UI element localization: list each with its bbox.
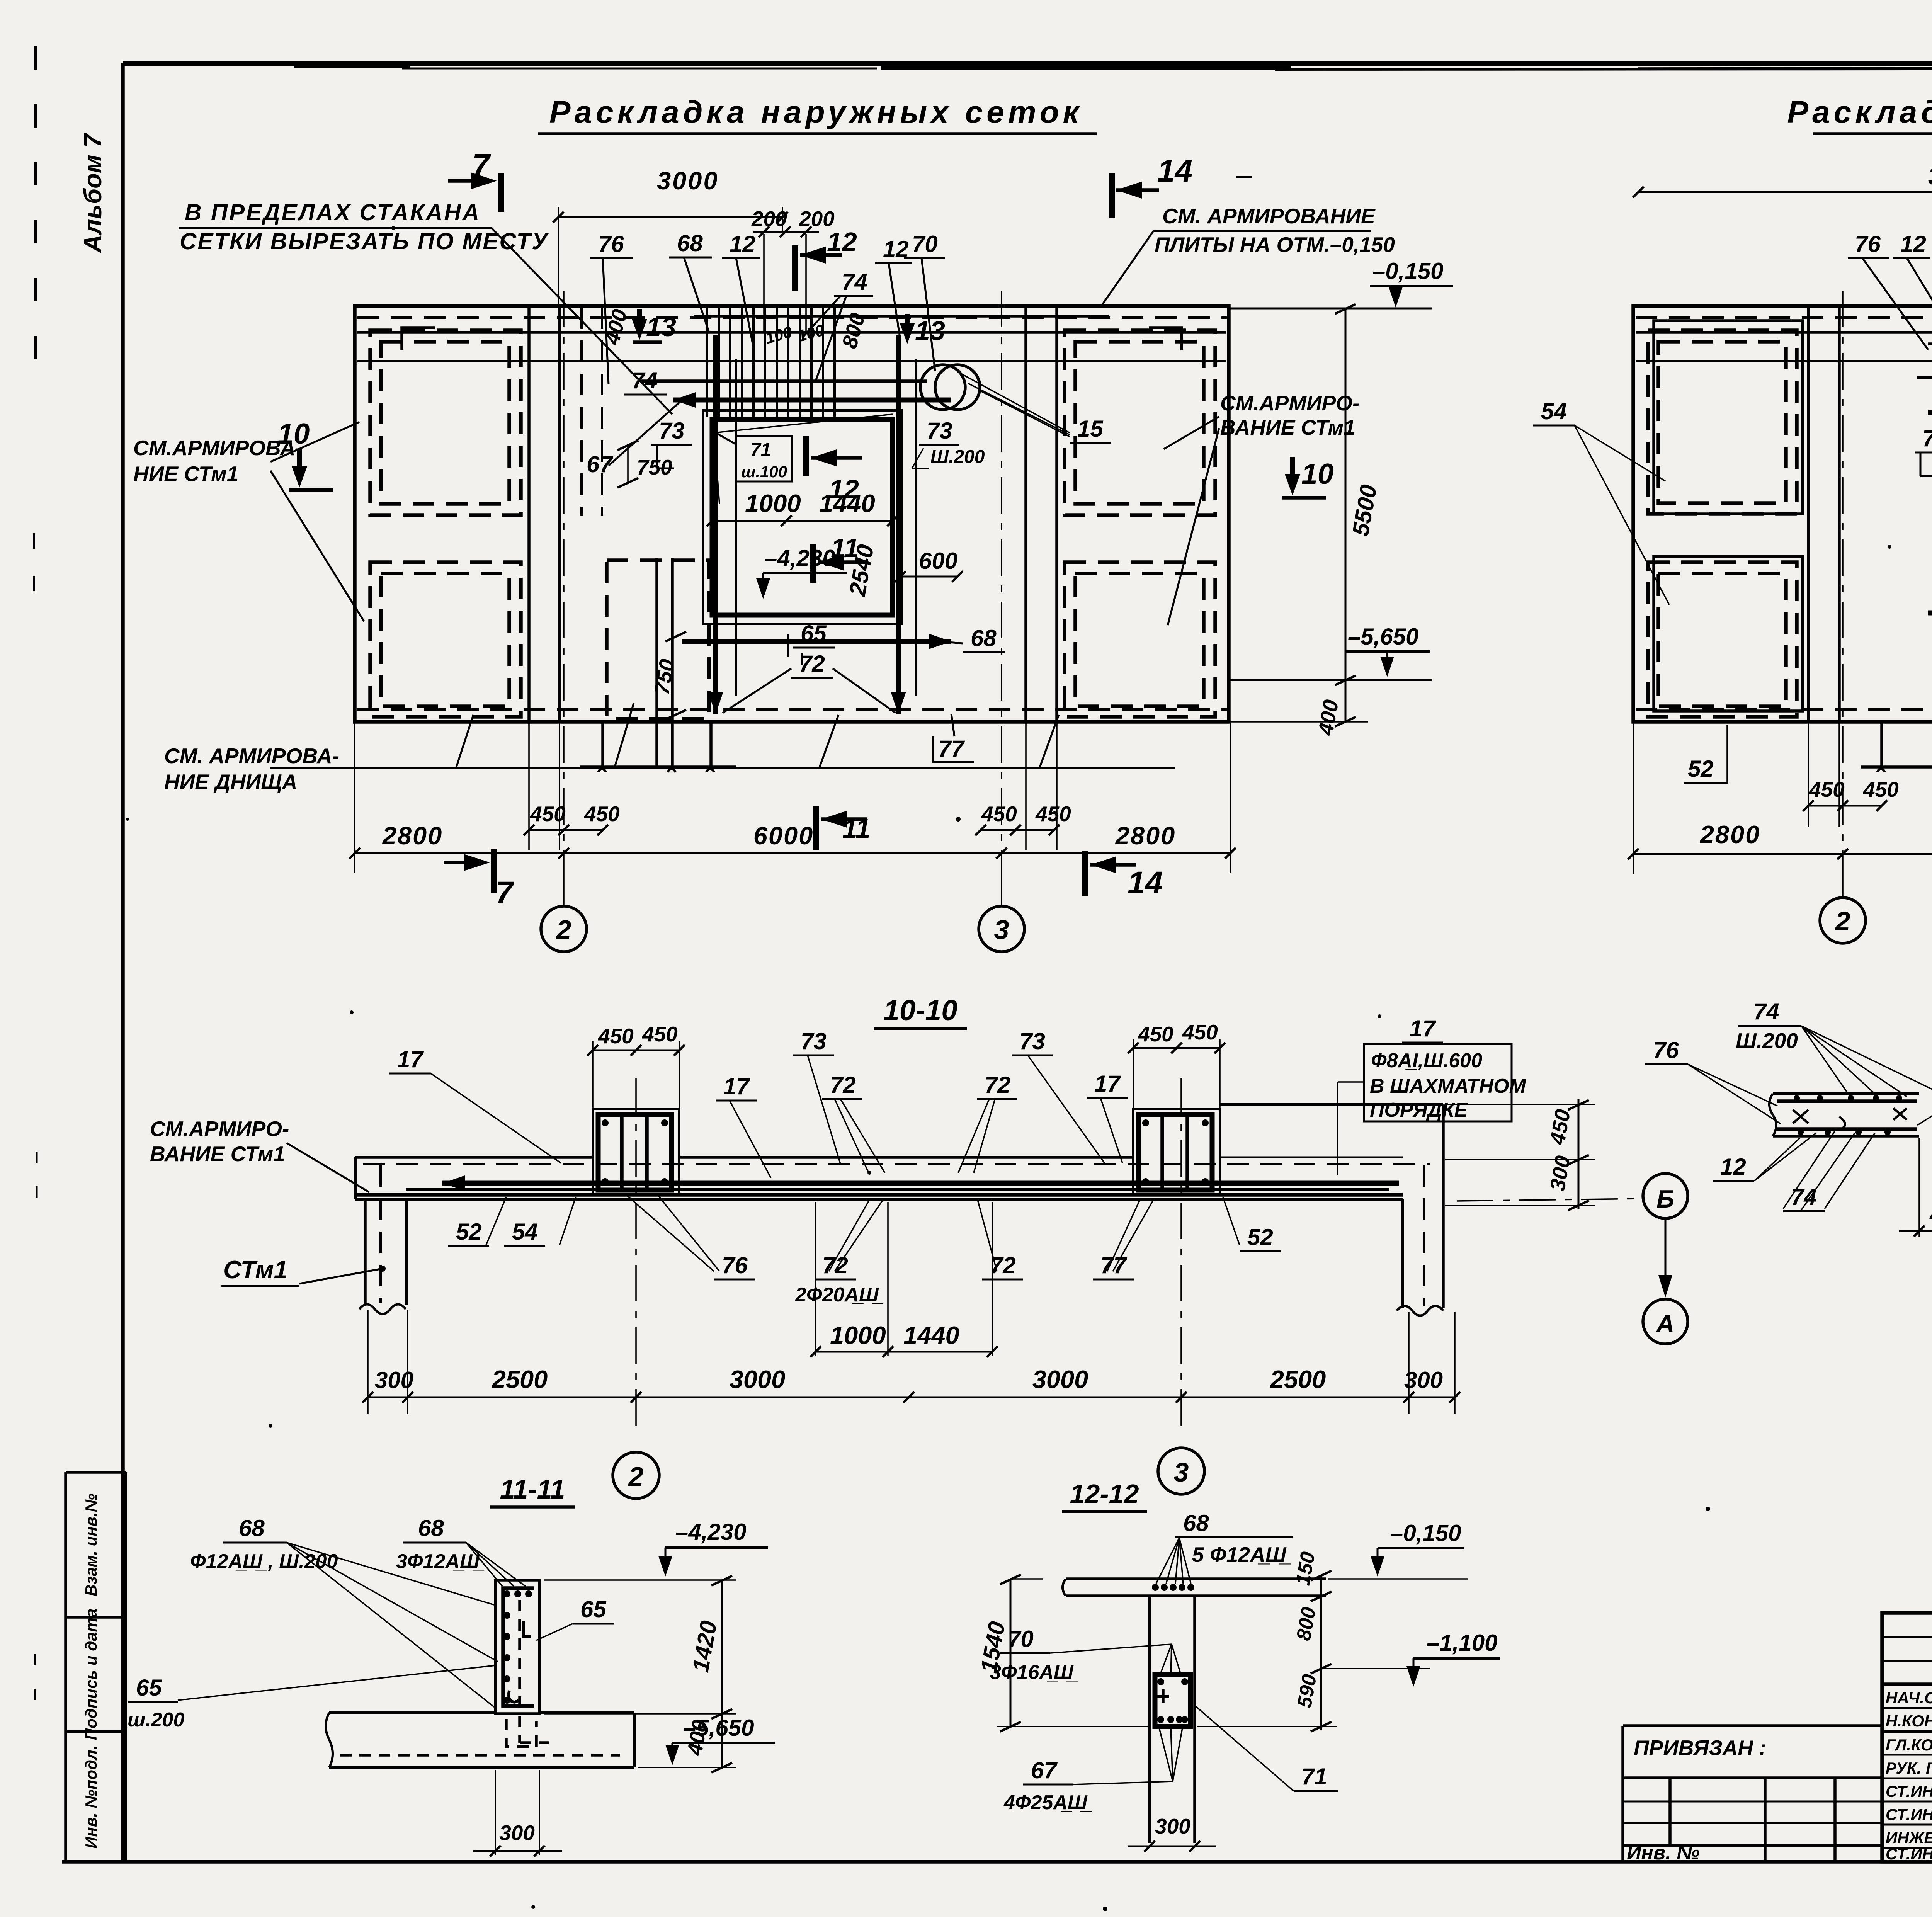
bar 73 heavy horizontal with left arrow bbox=[673, 398, 951, 403]
svg-text:74: 74 bbox=[632, 367, 658, 393]
svg-text:54: 54 bbox=[1541, 398, 1567, 424]
top blank rows bbox=[1882, 1636, 1932, 1638]
svg-text:–0,150: –0,150 bbox=[1372, 258, 1444, 284]
strip A outer bbox=[1773, 1092, 1919, 1095]
svg-text:Ш.200: Ш.200 bbox=[1736, 1029, 1798, 1053]
svg-text:52: 52 bbox=[456, 1219, 482, 1245]
svg-text:15: 15 bbox=[1077, 416, 1104, 442]
svg-text:СЕТКИ ВЫРЕЗАТЬ ПО МЕСТУ: СЕТКИ ВЫРЕЗАТЬ ПО МЕСТУ bbox=[180, 228, 549, 254]
vertical dim 150 800 590 bbox=[1320, 1575, 1322, 1730]
svg-text:71: 71 bbox=[750, 440, 771, 460]
vertical dim 5500 left plan bbox=[1345, 308, 1347, 680]
svg-text:Взам. инв.№: Взам. инв.№ bbox=[82, 1493, 100, 1596]
svg-text:ВАНИЕ СТм1: ВАНИЕ СТм1 bbox=[1220, 415, 1355, 439]
right plan axis 2 bbox=[1842, 291, 1844, 854]
right wall corner going down bbox=[1442, 1104, 1445, 1308]
svg-text:72: 72 bbox=[799, 651, 825, 677]
svg-text:73: 73 bbox=[1019, 1028, 1045, 1054]
svg-text:65: 65 bbox=[580, 1596, 607, 1622]
svg-text:70: 70 bbox=[1008, 1626, 1034, 1652]
node circle B bbox=[1643, 1174, 1688, 1218]
drain circle 77 bbox=[935, 365, 980, 410]
plan outer wall rectangle bbox=[1633, 306, 1932, 722]
wall vertical pair left bbox=[1807, 306, 1810, 722]
svg-text:Альбом 7: Альбом 7 bbox=[78, 133, 107, 253]
column outer bbox=[495, 1580, 539, 1714]
svg-text:300: 300 bbox=[1155, 1814, 1190, 1838]
svg-text:450: 450 bbox=[584, 802, 620, 826]
privyazan table bbox=[1623, 1724, 1882, 1727]
svg-text:13: 13 bbox=[915, 316, 945, 346]
left cell dashed mesh rect A1 bbox=[370, 330, 521, 515]
svg-text:7: 7 bbox=[495, 875, 514, 910]
inner top wall lines bbox=[1636, 331, 1932, 334]
right cell dashed mesh rect D1 bbox=[1065, 562, 1215, 717]
stakan opening outer square bbox=[703, 410, 901, 624]
dim 300 bottom bbox=[495, 1770, 496, 1855]
axis circle 3 left plan bbox=[979, 906, 1024, 952]
heavy horizontal bar top bbox=[1928, 410, 1932, 415]
svg-text:68: 68 bbox=[418, 1515, 444, 1541]
svg-text:РУК. ГР.: РУК. ГР. bbox=[1886, 1759, 1932, 1777]
svg-text:600: 600 bbox=[919, 548, 957, 574]
thin verticals beside bars bbox=[735, 359, 737, 696]
svg-text:67: 67 bbox=[1031, 1757, 1058, 1783]
svg-text:17: 17 bbox=[723, 1073, 750, 1099]
svg-text:НИЕ СТм1: НИЕ СТм1 bbox=[133, 462, 238, 486]
svg-text:3000: 3000 bbox=[1032, 1365, 1088, 1393]
svg-text:68: 68 bbox=[239, 1515, 265, 1541]
svg-text:2800: 2800 bbox=[1699, 820, 1761, 849]
right cell dashed mesh rect C1 bbox=[1065, 330, 1215, 515]
node circle A bbox=[1643, 1299, 1688, 1344]
lower center dashed strip bbox=[607, 560, 709, 719]
svg-text:СТм1: СТм1 bbox=[223, 1255, 288, 1284]
inner top wall lines bbox=[357, 331, 1226, 334]
svg-text:76: 76 bbox=[1855, 231, 1881, 257]
svg-text:450: 450 bbox=[1035, 802, 1071, 826]
svg-text:72: 72 bbox=[985, 1072, 1010, 1098]
section mark 12 in stakan bbox=[803, 436, 809, 476]
plan outer wall rectangle bbox=[355, 306, 1229, 722]
left margin stamp boxes bbox=[64, 1472, 67, 1862]
leader diagonals in stakan bbox=[714, 433, 719, 504]
right plan main dim line bbox=[1633, 853, 1932, 855]
svg-text:17: 17 bbox=[397, 1046, 424, 1072]
svg-text:65: 65 bbox=[801, 621, 827, 646]
svg-text:450: 450 bbox=[1863, 777, 1899, 801]
heavy vertical bar 13 left bbox=[713, 335, 718, 714]
axis dashdot through pilaster 2 bbox=[1180, 1078, 1182, 1426]
svg-text:13: 13 bbox=[646, 312, 676, 342]
slab of 12-12 bbox=[1066, 1577, 1326, 1580]
svg-text:72: 72 bbox=[830, 1072, 856, 1098]
svg-text:450: 450 bbox=[642, 1022, 678, 1046]
stakan opening inner heavy square bbox=[712, 419, 893, 615]
svg-text:3: 3 bbox=[1174, 1457, 1189, 1487]
svg-text:1440: 1440 bbox=[903, 1321, 959, 1349]
svg-text:52: 52 bbox=[1688, 756, 1714, 782]
section mark 12 top bbox=[792, 245, 798, 291]
svg-text:СТ.ИНЖ: СТ.ИНЖ bbox=[1886, 1782, 1932, 1800]
svg-text:3Ф16А̲Ш̲: 3Ф16А̲Ш̲ bbox=[990, 1661, 1078, 1684]
svg-text:68: 68 bbox=[677, 230, 703, 256]
svg-text:3000: 3000 bbox=[657, 167, 719, 195]
svg-text:–5,650: –5,650 bbox=[1348, 624, 1419, 650]
column rebar cage bbox=[503, 1588, 534, 1706]
axis dashdot through pilaster 1 bbox=[635, 1078, 637, 1430]
svg-text:52: 52 bbox=[1247, 1224, 1273, 1250]
svg-text:2800: 2800 bbox=[382, 822, 443, 850]
svg-text:450: 450 bbox=[1138, 1022, 1173, 1046]
svg-text:450: 450 bbox=[1182, 1020, 1218, 1044]
svg-text:450: 450 bbox=[981, 802, 1017, 826]
svg-text:54: 54 bbox=[512, 1219, 538, 1245]
svg-text:Ф8А̲I,Ш.600: Ф8А̲I,Ш.600 bbox=[1371, 1050, 1482, 1072]
svg-text:СТ.ИНЖ.: СТ.ИНЖ. bbox=[1886, 1845, 1932, 1863]
left cell dashed mesh rect A2 bbox=[381, 342, 509, 504]
svg-text:Инв. №подл.: Инв. №подл. bbox=[82, 1745, 100, 1848]
dashdot line to node B bbox=[1457, 1199, 1641, 1201]
svg-text:68: 68 bbox=[1183, 1510, 1209, 1536]
svg-text:–4,230: –4,230 bbox=[675, 1519, 747, 1545]
footing dashed rebar bbox=[340, 1754, 620, 1757]
svg-text:4Ф25А̲Ш̲: 4Ф25А̲Ш̲ bbox=[1003, 1791, 1092, 1814]
left cell dashed mesh rect B1 bbox=[370, 562, 521, 717]
axis line 3 left plan bbox=[1001, 291, 1002, 853]
svg-text:71: 71 bbox=[1301, 1764, 1327, 1789]
svg-text:12-12: 12-12 bbox=[1070, 1479, 1139, 1509]
hook symbols in column bbox=[524, 1621, 531, 1636]
svg-text:Раскладка внутренних сеток: Раскладка внутренних сеток bbox=[1787, 95, 1932, 130]
sheet frame bottom border bbox=[62, 1860, 1932, 1864]
svg-text:НИЕ ДНИЩА: НИЕ ДНИЩА bbox=[164, 770, 297, 794]
svg-text:73: 73 bbox=[659, 418, 685, 444]
heavy rebar bar in band bbox=[442, 1181, 1399, 1186]
svg-text:Ш.200: Ш.200 bbox=[930, 447, 985, 467]
svg-text:СМ. АРМИРОВАНИЕ: СМ. АРМИРОВАНИЕ bbox=[1162, 204, 1376, 228]
svg-text:300: 300 bbox=[499, 1821, 535, 1845]
svg-text:2Ф20А̲Ш̲: 2Ф20А̲Ш̲ bbox=[795, 1284, 883, 1306]
svg-text:12: 12 bbox=[1900, 231, 1926, 257]
name rows bbox=[1882, 1707, 1932, 1709]
bottom step right plan bbox=[1880, 722, 1883, 767]
svg-text:–1,100: –1,100 bbox=[1427, 1630, 1498, 1656]
svg-text:Ф12А̲Ш̲ , Ш.200: Ф12А̲Ш̲ , Ш.200 bbox=[190, 1550, 338, 1573]
svg-text:400: 400 bbox=[1929, 1203, 1932, 1226]
pilaster 2 outer bbox=[1133, 1109, 1220, 1194]
bar 74 horizontal bbox=[641, 379, 927, 383]
corner mark top-right cell bbox=[1149, 328, 1182, 350]
svg-text:450: 450 bbox=[598, 1024, 634, 1048]
svg-text:74: 74 bbox=[842, 269, 867, 295]
dashed bar in column to footing bbox=[520, 1600, 549, 1743]
stem walls bbox=[1148, 1596, 1151, 1843]
svg-text:73: 73 bbox=[1922, 425, 1932, 451]
svg-text:750: 750 bbox=[637, 455, 672, 479]
left cell dashed rects bbox=[1648, 330, 1797, 514]
svg-text:Б: Б bbox=[1656, 1185, 1674, 1213]
vertical dim 450 300 at right end bbox=[1578, 1099, 1580, 1209]
vertical dim 1420 and 400 bbox=[721, 1580, 723, 1767]
svg-text:ИНЖЕНЕР: ИНЖЕНЕР bbox=[1886, 1829, 1932, 1847]
svg-text:77: 77 bbox=[938, 736, 965, 762]
svg-text:2800: 2800 bbox=[1115, 822, 1176, 850]
svg-text:2: 2 bbox=[556, 915, 571, 945]
svg-text:2500: 2500 bbox=[491, 1365, 548, 1393]
svg-text:–4,230: –4,230 bbox=[764, 545, 835, 571]
main dim line left plan bbox=[355, 852, 1230, 854]
heavy vertical bar 13 right bbox=[896, 335, 901, 714]
bottom step of pit bbox=[601, 722, 604, 767]
footing slab bbox=[329, 1711, 495, 1714]
pilaster 1 outer bbox=[593, 1109, 679, 1194]
long leader line sm armirovanie dnishcha bbox=[270, 767, 1175, 769]
svg-text:3000: 3000 bbox=[1928, 162, 1932, 190]
svg-text:76: 76 bbox=[722, 1252, 748, 1278]
axis line 2 left plan bbox=[563, 291, 565, 853]
scan artifact dashes at left edge bbox=[34, 46, 37, 394]
svg-text:70: 70 bbox=[912, 231, 938, 257]
sheet frame top border bbox=[123, 61, 1932, 66]
rebar fan vertical bars top center bbox=[707, 307, 835, 417]
svg-text:Н.КОНТР.: Н.КОНТР. bbox=[1886, 1712, 1932, 1730]
svg-text:450: 450 bbox=[530, 802, 566, 826]
gap extension lines and dim 400 bbox=[1918, 1138, 1920, 1237]
rebar box in stem bbox=[1155, 1675, 1190, 1726]
svg-text:12: 12 bbox=[1720, 1154, 1746, 1180]
svg-text:2: 2 bbox=[1835, 906, 1850, 936]
svg-text:12: 12 bbox=[730, 231, 755, 257]
svg-text:СМ. АРМИРОВА-: СМ. АРМИРОВА- bbox=[164, 744, 339, 768]
svg-text:14: 14 bbox=[1128, 865, 1163, 900]
svg-text:17: 17 bbox=[1410, 1015, 1436, 1041]
svg-text:11-11: 11-11 bbox=[500, 1474, 565, 1504]
main title block frame bbox=[1882, 1613, 1932, 1862]
svg-text:68: 68 bbox=[971, 625, 997, 651]
svg-text:17: 17 bbox=[1094, 1071, 1121, 1097]
svg-text:72: 72 bbox=[990, 1252, 1016, 1278]
svg-text:6000: 6000 bbox=[753, 822, 814, 850]
svg-text:5 Ф12А̲Ш̲: 5 Ф12А̲Ш̲ bbox=[1192, 1543, 1291, 1567]
svg-text:3: 3 bbox=[994, 915, 1009, 945]
svg-text:1000: 1000 bbox=[830, 1321, 886, 1349]
svg-text:–0,150: –0,150 bbox=[1390, 1520, 1461, 1546]
wall inner vertical pair left bbox=[527, 306, 531, 722]
arrow between B and A bbox=[1665, 1219, 1667, 1291]
svg-text:73: 73 bbox=[927, 418, 952, 444]
svg-text:76: 76 bbox=[598, 231, 624, 257]
svg-text:12: 12 bbox=[827, 227, 857, 257]
svg-text:ПОРЯДКЕ: ПОРЯДКЕ bbox=[1370, 1099, 1468, 1121]
right cell dashed mesh rect C2 bbox=[1075, 342, 1204, 504]
left cell dashed mesh rect B2 bbox=[381, 573, 509, 706]
left cell solid lower rect bbox=[1654, 556, 1803, 711]
boxed label 71 sh100 bbox=[736, 436, 792, 481]
svg-text:СМ.АРМИРО-: СМ.АРМИРО- bbox=[150, 1117, 289, 1141]
column strip verticals bbox=[655, 558, 658, 767]
svg-text:1000: 1000 bbox=[745, 489, 801, 517]
svg-text:74: 74 bbox=[1753, 998, 1779, 1024]
svg-text:ГЛ.КОНСТР: ГЛ.КОНСТР bbox=[1886, 1736, 1932, 1754]
svg-text:3Ф12А̲Ш̲: 3Ф12А̲Ш̲ bbox=[396, 1550, 484, 1573]
right cell dashed mesh rect D2 bbox=[1075, 573, 1204, 706]
thick row line under TP bbox=[1882, 1682, 1932, 1686]
axis circle 2 left plan bbox=[541, 906, 587, 952]
svg-text:73: 73 bbox=[801, 1028, 827, 1054]
wall inner vertical pair right bbox=[1024, 306, 1027, 722]
band bottom double lines bbox=[355, 1193, 1403, 1197]
svg-text:10: 10 bbox=[277, 417, 310, 450]
svg-text:ПЛИТЫ НА ОТМ.–0,150: ПЛИТЫ НА ОТМ.–0,150 bbox=[1155, 233, 1395, 257]
corner mark top-left cell bbox=[402, 328, 435, 350]
left cell solid inner rect bbox=[1654, 321, 1803, 514]
svg-text:Раскладка наружных сеток: Раскладка наружных сеток bbox=[549, 95, 1083, 130]
bottom dim row 300 2500 3000 3000 2500 300 bbox=[368, 1397, 1455, 1398]
sheet frame left border bbox=[121, 63, 125, 1863]
dim 400 left plan bottom right bbox=[1335, 717, 1356, 726]
axis circle 3 of 10-10 bbox=[1158, 1448, 1204, 1494]
svg-text:ш.200: ш.200 bbox=[128, 1709, 185, 1731]
svg-text:НАЧ.ОТД.: НАЧ.ОТД. bbox=[1886, 1689, 1932, 1707]
left wall corner going down bbox=[354, 1157, 357, 1199]
pilaster 2 inner cage bbox=[1139, 1114, 1212, 1190]
svg-text:А: А bbox=[1656, 1310, 1675, 1338]
svg-text:ш.100: ш.100 bbox=[741, 463, 787, 481]
axis circle 2 of 10-10 bbox=[613, 1452, 659, 1499]
dashed rebar line in band bbox=[363, 1163, 1430, 1165]
wall band top line segments bbox=[355, 1156, 593, 1159]
svg-text:3000: 3000 bbox=[730, 1365, 786, 1393]
rebar dots in slab bbox=[1152, 1584, 1159, 1591]
svg-text:2: 2 bbox=[628, 1461, 644, 1492]
heavy horizontal bar bottom bbox=[1928, 611, 1932, 616]
svg-text:ПРИВЯЗАН :: ПРИВЯЗАН : bbox=[1634, 1736, 1766, 1760]
svg-text:В ПРЕДЕЛАХ СТАКАНА: В ПРЕДЕЛАХ СТАКАНА bbox=[185, 199, 481, 225]
svg-text:СМ.АРМИРО-: СМ.АРМИРО- bbox=[1220, 391, 1359, 415]
svg-text:2500: 2500 bbox=[1269, 1365, 1326, 1393]
svg-text:СТ.ИНЖ.: СТ.ИНЖ. bbox=[1886, 1805, 1932, 1823]
svg-text:10: 10 bbox=[1301, 458, 1333, 490]
strip A rebar bbox=[1777, 1099, 1917, 1103]
second rebar line bbox=[406, 1188, 1389, 1191]
svg-text:1440: 1440 bbox=[819, 489, 875, 517]
svg-text:14: 14 bbox=[1157, 153, 1192, 189]
pilaster 1 inner cage bbox=[598, 1114, 672, 1190]
svg-text:Инв. №̲: Инв. №̲ bbox=[1627, 1842, 1704, 1864]
bar 68 heavy horizontal bottom with right arrow bbox=[682, 639, 951, 644]
svg-text:Подпись и дата: Подпись и дата bbox=[82, 1609, 100, 1740]
svg-text:В ШАХМАТНОМ: В ШАХМАТНОМ bbox=[1370, 1075, 1527, 1097]
svg-text:76: 76 bbox=[1653, 1037, 1679, 1063]
svg-text:10-10: 10-10 bbox=[883, 994, 957, 1026]
svg-text:ВАНИЕ СТм1: ВАНИЕ СТм1 bbox=[150, 1142, 285, 1166]
svg-text:65: 65 bbox=[136, 1675, 162, 1701]
vertical dim 1540 bbox=[1010, 1579, 1012, 1726]
svg-text:300: 300 bbox=[1404, 1367, 1443, 1393]
